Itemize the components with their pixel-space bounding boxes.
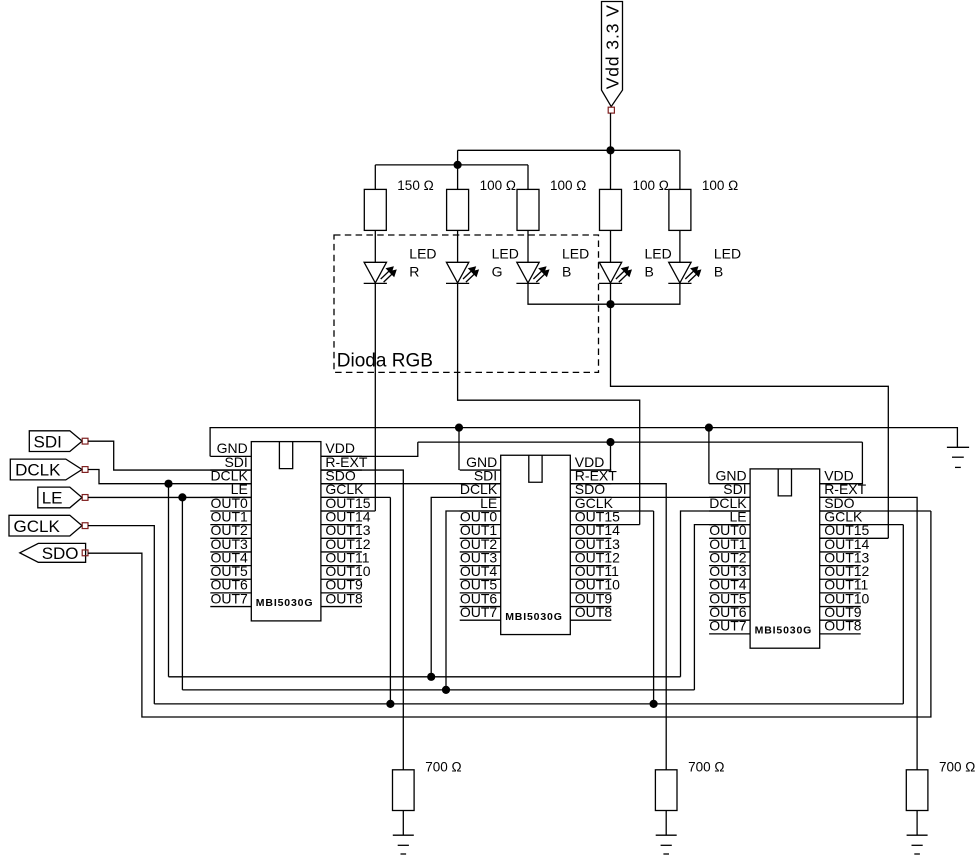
svg-text:100 Ω: 100 Ω xyxy=(702,178,738,193)
wire U1.VDD to rail xyxy=(321,442,418,456)
power flag Vdd 3.3 V xyxy=(602,2,623,114)
label LED D5 xyxy=(714,246,741,280)
wire R8 to ground xyxy=(916,811,918,836)
U3 pin OUT3 (left) xyxy=(709,563,750,579)
U2 pin OUT2 (left) xyxy=(460,536,501,552)
U2 pin OUT10 (right) xyxy=(570,577,620,593)
svg-text:SDI: SDI xyxy=(34,432,62,451)
ground symbol right xyxy=(947,447,969,467)
connector SDO xyxy=(20,543,88,563)
junction B-net cathodes xyxy=(606,300,614,308)
svg-text:OUT8: OUT8 xyxy=(575,604,613,620)
U1 pin OUT4 (left) xyxy=(210,549,251,565)
svg-text:LED: LED xyxy=(714,246,741,262)
label LED D4 xyxy=(645,246,672,280)
U2 pin SDI (left) xyxy=(460,468,501,484)
svg-text:B: B xyxy=(714,263,723,279)
U1 pin OUT8 (right) xyxy=(321,590,363,606)
junction LE rail / U2 riser xyxy=(442,686,450,694)
U2 pin OUT12 (right) xyxy=(570,549,620,565)
U3 pin GND (left) xyxy=(709,468,750,484)
ground symbol under R8 xyxy=(907,835,928,854)
junction VDD rail / U2 xyxy=(606,438,614,446)
svg-text:OUT7: OUT7 xyxy=(210,590,248,606)
svg-text:LED: LED xyxy=(409,246,436,262)
U1 pin R-EXT (right) xyxy=(321,454,368,470)
LED D3 (B) xyxy=(516,262,549,283)
wire Vdd rail lower (y=165) xyxy=(375,164,528,166)
wire LED D4 cathode / B net to U3 OUT15 xyxy=(611,283,889,538)
U1 pin DCLK (left) xyxy=(210,468,251,484)
U2 pin OUT11 (right) xyxy=(570,563,619,579)
junction LE bus xyxy=(178,493,186,501)
U2 pin OUT6 (left) xyxy=(460,590,501,606)
junction GND rail / U3 riser xyxy=(705,424,713,432)
label LED D2 xyxy=(492,246,519,280)
svg-text:GCLK: GCLK xyxy=(14,517,61,536)
wire GCLK bottom rail xyxy=(154,703,903,705)
wire SDO net: connector to bottom rail to U3.SDO xyxy=(88,511,931,717)
svg-text:OUT7: OUT7 xyxy=(709,618,747,634)
wire LED D1 cathode to U1 OUT15 xyxy=(321,283,375,511)
U2 pin OUT8 (right) xyxy=(570,604,612,620)
U2 pin LE (left) xyxy=(460,495,501,511)
wire DCLK bottom rail xyxy=(169,676,681,678)
wire U2.VDD to rail xyxy=(570,442,610,470)
U2 pin GCLK (right) xyxy=(570,495,613,511)
wire Vdd drop from flag to rail xyxy=(610,113,612,150)
resistor R8 700 ohm xyxy=(906,770,928,811)
wire U2.R-EXT to R7 xyxy=(570,484,666,770)
svg-text:700 Ω: 700 Ω xyxy=(425,760,461,775)
U2 pin DCLK (left) xyxy=(460,481,501,497)
resistor R5 xyxy=(669,189,691,230)
wire R5 to LED D5 anode xyxy=(679,230,681,262)
U3 pin OUT5 (left) xyxy=(709,590,750,606)
svg-text:B: B xyxy=(645,263,654,279)
U3 pin VDD (right) xyxy=(820,468,861,484)
ground symbol under R7 xyxy=(656,835,677,854)
U1 pin OUT11 (right) xyxy=(321,549,370,565)
junction GCLK rail / U1 riser xyxy=(386,700,394,708)
U1 pin OUT10 (right) xyxy=(321,563,371,579)
wire LE bus vertical xyxy=(181,497,183,690)
U1 pin OUT7 (left) xyxy=(210,590,251,606)
label LED D3 xyxy=(562,246,589,280)
junction Vdd rail / power drop xyxy=(606,146,614,154)
svg-text:MBI5030G: MBI5030G xyxy=(256,597,314,609)
U1 pin LE (left) xyxy=(210,481,251,497)
wire DCLK riser to U3.DCLK xyxy=(681,511,751,677)
U3 pin OUT4 (left) xyxy=(709,577,750,593)
svg-text:LED: LED xyxy=(562,246,589,262)
resistor R2 xyxy=(447,189,469,230)
U3 pin OUT2 (left) xyxy=(709,549,750,565)
wire GND riser U2 xyxy=(458,428,460,470)
U1 pin SDO (right) xyxy=(321,468,362,484)
connector SDI xyxy=(29,431,88,452)
wire LE bottom rail xyxy=(182,689,694,691)
svg-text:Vdd 3.3 V: Vdd 3.3 V xyxy=(603,4,623,89)
wire R3 to LED D3 anode xyxy=(527,230,529,262)
U2 pin R-EXT (right) xyxy=(570,468,617,484)
U3 pin SDI (left) xyxy=(709,481,750,497)
U1 pin OUT15 (right) xyxy=(321,495,371,511)
U3 pin DCLK (left) xyxy=(709,495,750,511)
junction GND rail / U2 riser xyxy=(455,424,463,432)
U2 pin SDO (right) xyxy=(570,481,611,497)
op-chip U3 MBI5030G body xyxy=(750,469,820,648)
LED D4 (B) xyxy=(599,262,632,283)
U2 pin OUT13 (right) xyxy=(570,536,620,552)
U2 pin VDD (right) xyxy=(570,454,611,470)
U2 pin OUT9 (right) xyxy=(570,590,612,606)
wire R6 to ground xyxy=(402,811,404,836)
U3 pin OUT11 (right) xyxy=(820,577,869,593)
svg-text:LE: LE xyxy=(42,489,63,508)
U1 pin OUT9 (right) xyxy=(321,577,363,593)
wire Vdd rail upper (y=150) xyxy=(458,149,680,151)
svg-text:G: G xyxy=(492,263,503,279)
U3 pin R-EXT (right) xyxy=(820,481,867,497)
ground symbol under R6 xyxy=(393,835,414,854)
U3 pin OUT1 (left) xyxy=(709,536,750,552)
U2 pin OUT1 (left) xyxy=(460,522,501,538)
U1 pin OUT6 (left) xyxy=(210,577,251,593)
connector LE xyxy=(38,487,88,508)
wire R1 to LED D1 anode xyxy=(374,230,376,262)
svg-text:700 Ω: 700 Ω xyxy=(939,760,975,775)
U1 pin VDD (right) xyxy=(321,440,362,456)
U1 pin SDI (left) xyxy=(210,454,251,470)
dashed enclosure Dioda RGB xyxy=(334,235,599,372)
wire LED D2 cathode to U2 OUT15 xyxy=(458,283,640,524)
U3 pin OUT7 (left) xyxy=(709,618,750,634)
svg-text:Dioda RGB: Dioda RGB xyxy=(337,350,433,371)
U2 pin OUT14 (right) xyxy=(570,522,620,538)
wire VDD rail (y=442) xyxy=(418,441,863,443)
U1 pin OUT2 (left) xyxy=(210,522,251,538)
wire LED D5 cathode xyxy=(611,283,680,304)
U2 pin OUT7 (left) xyxy=(460,604,501,620)
U3 pin OUT9 (right) xyxy=(820,604,862,620)
U1 pin OUT0 (left) xyxy=(210,495,251,511)
wire DCLK bus vertical xyxy=(168,484,170,677)
U3 pin OUT15 (right) xyxy=(820,522,870,538)
wire GND net: U1.GND riser and top rail to ground xyxy=(210,428,957,457)
wire Vdd rail to R1 xyxy=(374,165,376,190)
U1 pin OUT13 (right) xyxy=(321,522,371,538)
label LED D1 xyxy=(409,246,436,280)
U2 pin OUT5 (left) xyxy=(460,577,501,593)
U3 pin GCLK (right) xyxy=(820,508,863,524)
U1 pin OUT3 (left) xyxy=(210,536,251,552)
svg-text:OUT7: OUT7 xyxy=(460,604,498,620)
wire Vdd rail to R4 xyxy=(610,150,612,189)
wire R4 to LED D4 anode xyxy=(610,230,612,262)
U2 pin GND (left) xyxy=(460,454,501,470)
U3 pin OUT10 (right) xyxy=(820,590,870,606)
svg-text:B: B xyxy=(562,263,571,279)
svg-text:R: R xyxy=(409,263,419,279)
svg-text:150 Ω: 150 Ω xyxy=(397,178,433,193)
wire LED D3 cathode xyxy=(528,283,611,304)
resistor R3 xyxy=(517,189,539,230)
wire U1.R-EXT to R6 xyxy=(321,470,403,770)
wire R2 to LED D2 anode xyxy=(457,230,459,262)
resistor R1 xyxy=(364,189,386,230)
LED D1 (R) xyxy=(364,262,397,283)
wire GCLK riser to U3.GCLK xyxy=(820,525,904,704)
wire LE riser to U2.LE xyxy=(446,511,501,690)
LED D5 (B) xyxy=(668,262,701,283)
U1 pin GCLK (right) xyxy=(321,481,364,497)
svg-text:100 Ω: 100 Ω xyxy=(480,178,516,193)
U3 pin OUT13 (right) xyxy=(820,549,870,565)
LED D2 (G) xyxy=(446,262,479,283)
wire LE riser to U3.LE xyxy=(694,525,750,690)
U2 pin OUT4 (left) xyxy=(460,563,501,579)
resistor R7 700 ohm xyxy=(655,770,677,811)
svg-text:OUT8: OUT8 xyxy=(824,618,862,634)
wire daisy chain U2.SDO to U3.SDI xyxy=(570,496,750,498)
junction DCLK bus xyxy=(164,480,172,488)
wire Vdd rail to R5 xyxy=(679,150,681,189)
U1 pin GND (left) xyxy=(210,440,251,456)
U3 pin OUT12 (right) xyxy=(820,563,870,579)
op-chip U2 MBI5030G body xyxy=(501,455,571,634)
junction GCLK rail / U2 riser xyxy=(650,700,658,708)
wire daisy chain U1.SDO to U2.SDI xyxy=(321,483,501,485)
svg-text:DCLK: DCLK xyxy=(15,461,61,480)
svg-text:OUT8: OUT8 xyxy=(325,590,363,606)
junction Vdd lower rail / R2 branch xyxy=(454,161,462,169)
svg-text:MBI5030G: MBI5030G xyxy=(755,625,813,637)
wire LE net: connector to U1.LE xyxy=(88,496,251,498)
U2 pin OUT15 (right) xyxy=(570,508,620,524)
U1 pin OUT1 (left) xyxy=(210,508,251,524)
svg-text:LED: LED xyxy=(645,246,672,262)
U2 pin OUT0 (left) xyxy=(460,508,501,524)
svg-text:100 Ω: 100 Ω xyxy=(633,178,669,193)
U1 pin OUT14 (right) xyxy=(321,508,371,524)
svg-text:LED: LED xyxy=(492,246,519,262)
wire U3.R-EXT to R8 xyxy=(820,497,917,769)
resistor R6 700 ohm xyxy=(393,770,415,811)
wire DCLK riser to U2.DCLK xyxy=(431,497,501,676)
U3 pin OUT6 (left) xyxy=(709,604,750,620)
svg-text:SDO: SDO xyxy=(42,544,79,563)
U3 pin OUT8 (right) xyxy=(820,618,862,634)
wire SDI net: connector to U1.SDI xyxy=(88,441,251,470)
svg-text:MBI5030G: MBI5030G xyxy=(505,611,563,623)
connector DCLK xyxy=(10,459,88,480)
U3 pin SDO (right) xyxy=(820,495,861,511)
svg-text:100 Ω: 100 Ω xyxy=(550,178,586,193)
U3 pin OUT14 (right) xyxy=(820,536,870,552)
svg-text:700 Ω: 700 Ω xyxy=(688,760,724,775)
junction DCLK rail / U2 riser xyxy=(427,673,435,681)
connector GCLK xyxy=(9,515,88,536)
U3 pin LE (left) xyxy=(709,508,750,524)
wire GCLK net: connector to bus xyxy=(88,526,154,704)
U3 pin OUT0 (left) xyxy=(709,522,750,538)
op-chip U1 MBI5030G body xyxy=(251,442,321,621)
resistor R4 xyxy=(600,189,622,230)
wire U3.VDD to rail xyxy=(820,442,863,484)
wire R7 to ground xyxy=(665,811,667,836)
wire Vdd rail to R2 xyxy=(457,150,459,189)
wire Vdd rail to R3 xyxy=(527,165,529,190)
wire GND riser U3 xyxy=(708,428,710,484)
U1 pin OUT5 (left) xyxy=(210,563,251,579)
wire GCLK riser to U2.GCLK xyxy=(570,511,653,704)
U2 pin OUT3 (left) xyxy=(460,549,501,565)
wire GCLK riser to U1.GCLK xyxy=(321,497,391,704)
U1 pin OUT12 (right) xyxy=(321,536,371,552)
wire DCLK net: connector to U1.DCLK and bus xyxy=(88,470,251,484)
